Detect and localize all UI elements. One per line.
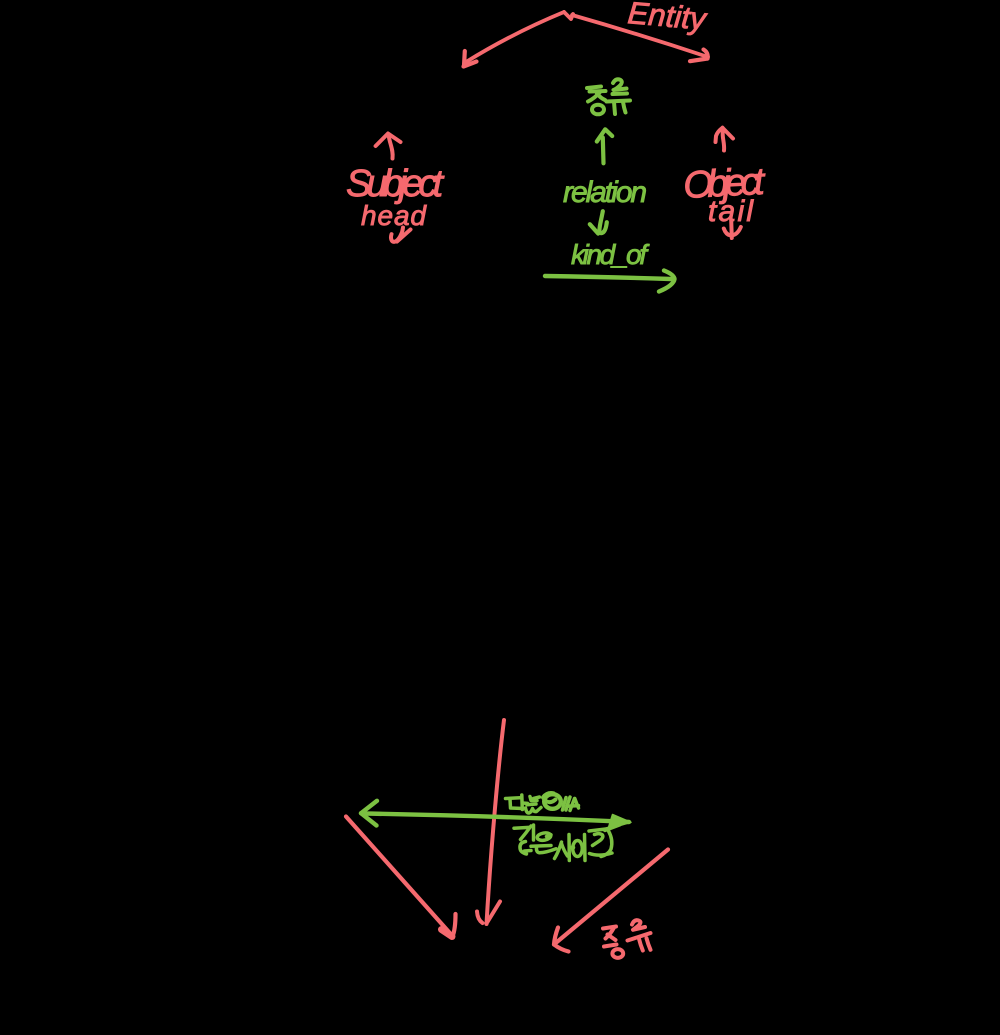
arrow: pink diagonal arrow (left, down-right) xyxy=(346,817,456,937)
svg-text:Subject: Subject xyxy=(346,163,444,205)
arrow: green horizontal double-headed arrow xyxy=(361,801,629,830)
arrow: pink diagonal arrow (right, down-left) xyxy=(554,850,668,952)
text: green korean "종류" (top) xyxy=(587,79,630,114)
arrow: pink anchor-style down arrow below "tail" xyxy=(724,220,741,238)
arrow: green horizontal arrow under "kind_of" xyxy=(545,271,675,292)
text: green korean line 2 "같은사이즈" xyxy=(514,825,612,861)
arrow: green down-arrow below "relation" xyxy=(590,211,607,233)
arrow: green up-arrow above "relation" xyxy=(597,129,612,163)
arrowhead: entity arrow right tip xyxy=(690,50,708,62)
arrow: pink up-arrow above "Object" xyxy=(716,128,734,151)
svg-text:head: head xyxy=(361,200,427,231)
arrowhead: entity arrow left tip xyxy=(464,51,477,67)
svg-text:relation: relation xyxy=(563,176,647,209)
wire: long pink curved line with down arrowhead xyxy=(477,720,504,924)
arrow: pink up-arrow above "Subject" xyxy=(376,134,401,159)
text: pink korean "종류" (bottom) xyxy=(603,920,651,958)
wire: entity bent double-arrow left segment xyxy=(466,12,708,62)
arrow: small pink down-check below "head" xyxy=(391,228,411,242)
svg-text:kind_of: kind_of xyxy=(571,239,650,270)
text: green korean line 1 "다른색상" xyxy=(506,794,579,814)
arrowhead: green right filled tip xyxy=(608,815,631,830)
